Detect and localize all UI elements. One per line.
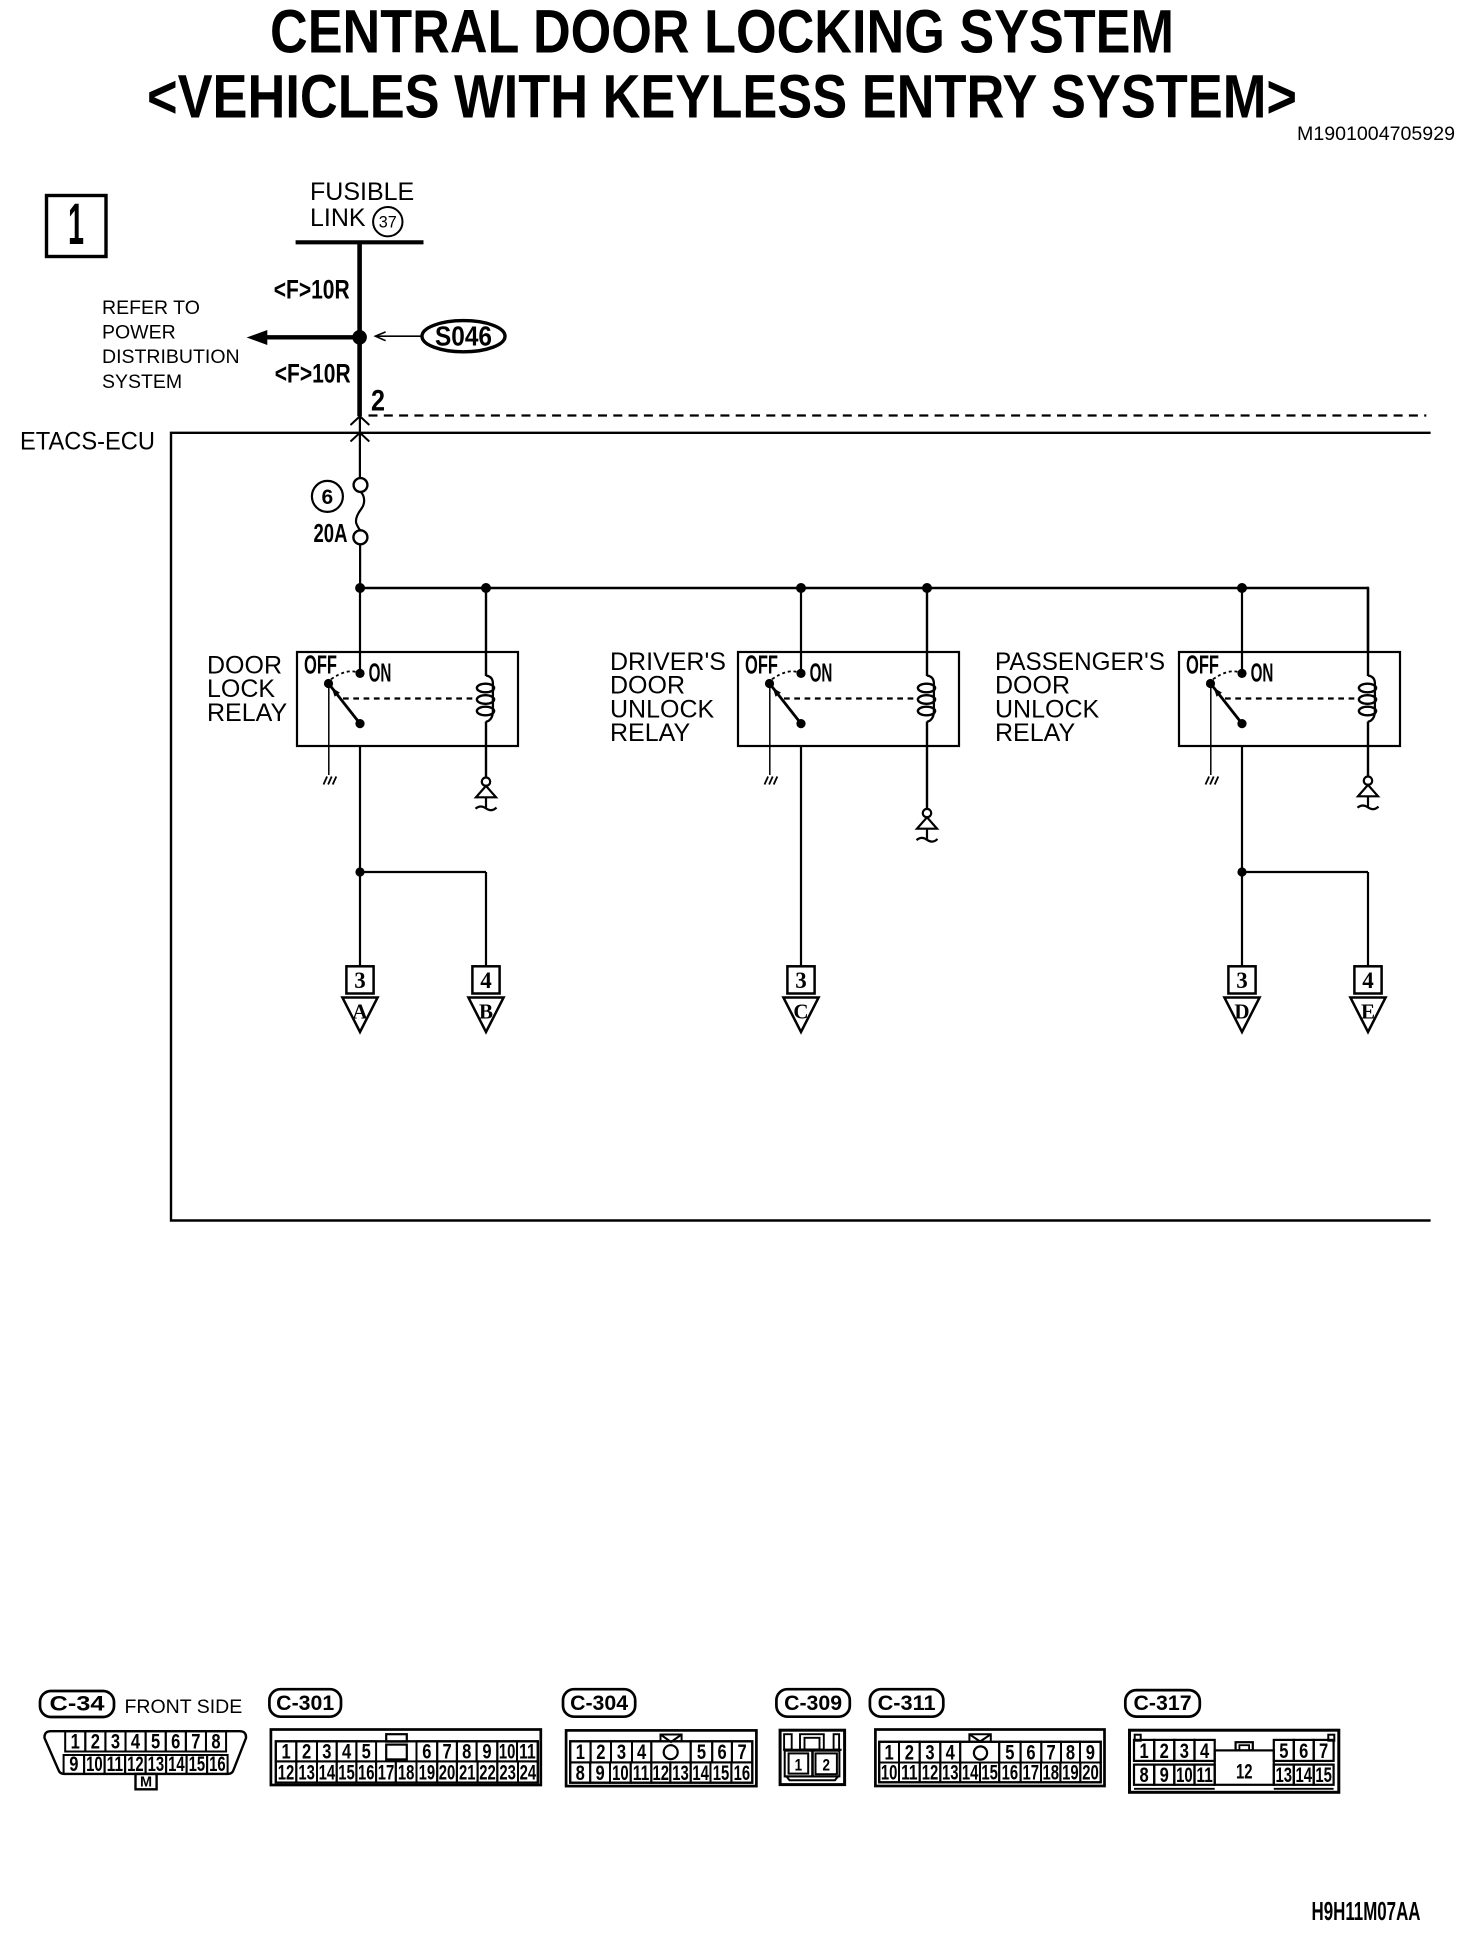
svg-text:2: 2 [822,1756,830,1775]
C-301 key cell [386,1745,407,1760]
svg-text:24: 24 [520,1762,537,1785]
svg-text:6: 6 [717,1741,726,1764]
svg-text:FUSIBLE: FUSIBLE [310,178,414,206]
svg-text:3: 3 [1180,1740,1189,1763]
svg-text:S046: S046 [435,321,492,352]
connector pin 4 / destination B [472,966,499,993]
svg-text:6: 6 [1299,1740,1308,1763]
relay 1 mechanical link dashed [343,697,477,699]
svg-text:16: 16 [1002,1762,1019,1785]
wire: bus drop to relay 3 coil [1367,588,1369,676]
svg-text:19: 19 [419,1762,436,1785]
svg-text:E: E [1361,1000,1375,1024]
wire: relay2 output down to connector C [800,746,802,966]
connector C-34 pin cells row 2 [64,1755,85,1774]
svg-text:OFF: OFF [1186,650,1219,680]
svg-text:9: 9 [482,1741,491,1764]
svg-text:SYSTEM: SYSTEM [102,371,182,393]
svg-text:1: 1 [1140,1740,1149,1763]
C-317 corner tabs [1135,1735,1141,1741]
wire: relay 3 coil to ground symbol [1367,746,1369,777]
svg-text:ON: ON [810,657,833,687]
connector C-311 housing [875,1730,1104,1787]
splice S046 [422,321,505,352]
connector C-34 pin cells row 1 [65,1731,85,1751]
C-309 pin 2 cell [813,1751,840,1777]
relay 3 coil [1368,676,1375,722]
relay 3 mechanical link dashed [1225,697,1359,699]
fuse circled 6 [312,481,343,512]
svg-text:20: 20 [439,1762,456,1785]
svg-text:11: 11 [519,1741,536,1764]
ground symbol (relay 2 coil) [923,809,931,817]
svg-text:11: 11 [901,1762,918,1785]
svg-text:LINK: LINK [310,204,366,232]
svg-text:16: 16 [209,1753,226,1776]
svg-text:8: 8 [211,1730,220,1753]
connector chevron at ECU box edge [351,433,370,442]
relay 3 dashed travel arc OFF-ON [1213,671,1240,679]
wire: bus corner down to passenger coil [1367,587,1369,652]
svg-text:1: 1 [576,1741,585,1764]
connector C-301 label [269,1689,341,1717]
svg-text:3: 3 [111,1730,120,1753]
connector pin 3 / destination C [787,966,814,993]
svg-text:15: 15 [981,1762,998,1785]
svg-text:7: 7 [738,1741,747,1764]
relay 3 box [1179,652,1400,746]
svg-text:22: 22 [479,1762,496,1785]
svg-text:6: 6 [422,1741,431,1764]
svg-text:6: 6 [171,1730,180,1753]
svg-text:10: 10 [499,1741,516,1764]
svg-text:12: 12 [653,1762,670,1785]
C-309 bottom shelf [785,1775,840,1777]
junction dot relay1 output branch [355,867,364,876]
svg-text:<F>10R: <F>10R [274,275,350,305]
svg-text:11: 11 [1196,1764,1213,1787]
C-317 left cells bottom row [1134,1765,1154,1785]
svg-text:H9H11M07AA: H9H11M07AA [1312,1896,1421,1926]
ground symbol (relay 1 coil) [482,778,490,786]
svg-text:14: 14 [319,1762,336,1785]
relay 2 dashed travel arc OFF-ON [772,671,799,679]
relay 2 box [738,652,959,746]
svg-text:14: 14 [168,1753,185,1776]
svg-text:23: 23 [499,1762,516,1785]
wire: into ETACS-ECU [359,416,361,478]
svg-text:ON: ON [369,657,392,687]
svg-text:13: 13 [1276,1764,1293,1787]
connector pin 3 / destination D [1228,966,1255,993]
wire: bus drop to relay 2 switch ON contact [800,588,802,673]
svg-text:15: 15 [713,1762,730,1785]
svg-text:C-301: C-301 [276,1692,334,1715]
wire: bus drop to relay 1 coil [485,588,487,676]
wire: bus drop to relay 3 switch ON contact [1241,588,1243,673]
svg-text:2: 2 [1160,1740,1169,1763]
junction dot bus/relay2 coil [922,583,932,593]
connector C-34 housing (trapezoid) [44,1731,246,1774]
svg-text:7: 7 [442,1741,451,1764]
svg-text:3: 3 [1236,968,1248,993]
svg-text:5: 5 [1279,1740,1288,1763]
svg-text:7: 7 [191,1730,200,1753]
svg-text:4: 4 [637,1741,646,1764]
connector pin 4 / destination E [1354,966,1381,993]
svg-text:5: 5 [697,1741,706,1764]
wire: main bus inside ECU [360,587,1368,589]
C-301 top key tab [386,1734,407,1741]
svg-text:<VEHICLES WITH KEYLESS ENTRY S: <VEHICLES WITH KEYLESS ENTRY SYSTEM> [147,63,1297,131]
svg-text:2: 2 [302,1741,311,1764]
svg-text:DISTRIBUTION: DISTRIBUTION [102,346,240,368]
svg-text:9: 9 [69,1753,78,1776]
C-301 inner cell frame [276,1741,538,1782]
svg-text:17: 17 [1023,1762,1040,1785]
relay 1 dashed travel arc OFF-ON [331,671,358,679]
svg-text:C-309: C-309 [784,1692,842,1715]
relay 1 switch arm [330,685,360,723]
svg-text:15: 15 [189,1753,206,1776]
relay 1 chassis ground hatch [324,777,328,785]
C-309 divider [783,1749,842,1751]
svg-text:4: 4 [480,968,492,993]
svg-text:REFER TO: REFER TO [102,297,200,319]
relay 2 chassis ground hatch [765,777,769,785]
junction dot bus/relay1 coil [481,583,491,593]
svg-text:11: 11 [107,1753,124,1776]
fusible link bar [296,240,424,244]
svg-text:OFF: OFF [745,650,778,680]
relay 1 OFF pivot dot [324,679,333,688]
relay 3 switch arm [1212,685,1242,723]
C-311 top lock mark [969,1734,990,1741]
junction dot bus/relay3 switch [1237,583,1247,593]
C-317 bottom double line left [1134,1788,1215,1790]
svg-text:19: 19 [1062,1762,1079,1785]
svg-text:4: 4 [342,1741,351,1764]
connector C-304 housing [566,1730,756,1786]
svg-text:15: 15 [338,1762,355,1785]
svg-text:14: 14 [962,1762,979,1785]
splice S046 callout arrow [378,335,421,337]
svg-text:<F>10R: <F>10R [275,359,351,389]
svg-text:4: 4 [131,1730,140,1753]
svg-text:8: 8 [576,1762,585,1785]
wire: relay3 output down [1241,746,1243,966]
relay 2 moving contact dot [796,719,805,728]
svg-text:M1901004705929: M1901004705929 [1297,124,1455,145]
svg-text:16: 16 [358,1762,375,1785]
C-317 left cells top row [1134,1740,1154,1761]
ETACS-ECU box (open right side) [171,433,1431,1221]
wire: relay 1 coil lower lead [485,722,487,747]
connector chevron at dashed boundary [351,416,370,425]
svg-text:12: 12 [1236,1761,1253,1784]
svg-text:C-304: C-304 [570,1692,628,1715]
svg-text:6: 6 [322,486,334,509]
wire: relay 2 coil to ground symbol [926,746,928,809]
C-317 middle cell pin 12 [1215,1750,1274,1784]
svg-text:15: 15 [1315,1764,1332,1787]
C-304 top lock mark [661,1735,682,1743]
relay 1 chassis ground lead (thin) [328,684,330,776]
relay 2 ON contact dot [796,669,805,678]
svg-text:8: 8 [462,1741,471,1764]
connector C-311 label [870,1689,943,1717]
connector C-309 housing [780,1730,845,1784]
wire: relay 2 coil lower lead [926,722,928,747]
relay 1 coil [486,676,493,722]
C-317 bottom double line right [1274,1788,1334,1790]
svg-text:M: M [140,1775,152,1791]
svg-text:1: 1 [795,1755,803,1774]
svg-text:C-317: C-317 [1134,1692,1192,1715]
connector C-309 label [776,1689,849,1717]
connector C-301 housing [271,1730,541,1786]
svg-text:ETACS-ECU: ETACS-ECU [20,428,155,456]
wire: relay3 branch to connector E [1242,871,1368,873]
svg-text:7: 7 [1319,1740,1328,1763]
svg-text:RELAY: RELAY [995,719,1075,747]
svg-text:3: 3 [354,968,366,993]
wire: relay1 branch to connector B [360,871,486,873]
C-304 key cell with circle [651,1741,690,1762]
svg-text:C: C [793,1000,808,1024]
svg-text:CENTRAL DOOR LOCKING SYSTEM: CENTRAL DOOR LOCKING SYSTEM [270,0,1174,66]
svg-text:2: 2 [596,1741,605,1764]
relay 2 chassis ground lead (thin) [769,684,771,776]
svg-text:10: 10 [612,1762,629,1785]
relay 2 mechanical link dashed [784,697,918,699]
wire: relay 3 coil lower lead [1367,722,1369,747]
junction: feed / power distribution branch [352,330,367,345]
svg-text:3: 3 [795,968,807,993]
C-311 key cell with circle [960,1742,999,1763]
svg-text:21: 21 [459,1762,476,1785]
relay 1 box [297,652,518,746]
svg-text:20: 20 [1082,1762,1099,1785]
svg-text:10: 10 [881,1762,898,1785]
relay 2 OFF pivot dot [765,679,774,688]
svg-text:2: 2 [91,1730,100,1753]
svg-text:POWER: POWER [102,322,176,344]
svg-text:13: 13 [942,1762,959,1785]
relay 3 chassis ground hatch [1206,777,1210,785]
relay 1 moving contact dot [355,719,364,728]
boundary dashed line [369,414,1427,416]
svg-text:12: 12 [922,1762,939,1785]
wire: bus drop to relay 2 coil [926,588,928,676]
svg-text:A: A [352,1000,368,1024]
ground symbol (relay 3 coil) [1364,777,1372,785]
svg-text:4: 4 [1362,968,1374,993]
svg-text:1: 1 [71,1730,80,1753]
svg-text:OFF: OFF [304,650,337,680]
svg-text:14: 14 [1296,1764,1313,1787]
fusible link circled 37 [373,207,402,236]
C-304 inner cell frame [570,1741,752,1782]
C-317 right cells top row [1274,1740,1294,1761]
svg-text:1: 1 [68,192,84,257]
svg-text:FRONT SIDE: FRONT SIDE [125,1696,243,1718]
junction dot bus/relay2 switch [796,583,806,593]
C-311 inner cell frame [879,1742,1100,1783]
C-34 index tab M [136,1774,157,1789]
svg-text:20A: 20A [314,520,348,548]
svg-text:RELAY: RELAY [610,719,690,747]
svg-text:11: 11 [633,1762,650,1785]
wire: relay1 output down [359,746,361,966]
svg-text:9: 9 [1160,1764,1169,1787]
svg-text:5: 5 [362,1741,371,1764]
wire: relay 1 coil to ground symbol [485,746,487,778]
svg-text:18: 18 [1042,1762,1059,1785]
wire: thick branch to power distribution [263,335,362,339]
svg-text:RELAY: RELAY [207,699,287,727]
svg-text:3: 3 [617,1741,626,1764]
C-317 right cells bottom row [1274,1765,1294,1785]
svg-text:C-34: C-34 [50,1693,105,1716]
relay 3 chassis ground lead (thin) [1210,684,1212,776]
C-309 top tabs [784,1734,792,1749]
svg-text:18: 18 [398,1762,415,1785]
svg-text:ON: ON [1251,657,1274,687]
wire: bus drop to relay 1 switch ON contact [359,588,361,673]
junction dot relay3 output branch [1237,867,1246,876]
connector C-317 label [1125,1690,1200,1717]
arrow to power distribution system [247,330,268,345]
junction dot bus/feed [355,583,365,593]
svg-text:13: 13 [672,1762,689,1785]
connector pin 3 / destination A [346,966,373,993]
sheet number box 1 [47,196,107,257]
svg-text:9: 9 [596,1762,605,1785]
svg-text:14: 14 [692,1762,709,1785]
svg-text:1: 1 [281,1741,290,1764]
svg-text:13: 13 [298,1762,315,1785]
relay 3 moving contact dot [1237,719,1246,728]
svg-text:10: 10 [1176,1764,1193,1787]
svg-text:4: 4 [1200,1740,1209,1763]
relay 2 switch arm [771,685,801,723]
wire: fuse to bus [359,544,361,588]
svg-text:37: 37 [379,213,397,231]
svg-text:12: 12 [278,1762,295,1785]
wire: battery feed thick vertical [357,242,362,416]
connector C-304 label [563,1689,635,1717]
svg-text:C-311: C-311 [878,1692,936,1715]
connector C-34 label [40,1691,114,1717]
C-309 pin 1 cell [785,1751,813,1777]
svg-text:16: 16 [734,1762,751,1785]
svg-text:10: 10 [86,1753,103,1776]
svg-text:8: 8 [1140,1764,1149,1787]
svg-text:2: 2 [371,385,385,418]
connector C-317 housing [1130,1730,1339,1792]
svg-text:D: D [1234,1000,1249,1024]
svg-text:17: 17 [378,1762,395,1785]
relay 1 ON contact dot [355,669,364,678]
svg-text:3: 3 [322,1741,331,1764]
relay 2 coil [927,676,934,722]
relay 3 OFF pivot dot [1206,679,1215,688]
svg-text:B: B [479,1000,493,1024]
relay 3 ON contact dot [1237,669,1246,678]
svg-text:5: 5 [151,1730,160,1753]
fuse element (circles + curve) [354,478,368,492]
